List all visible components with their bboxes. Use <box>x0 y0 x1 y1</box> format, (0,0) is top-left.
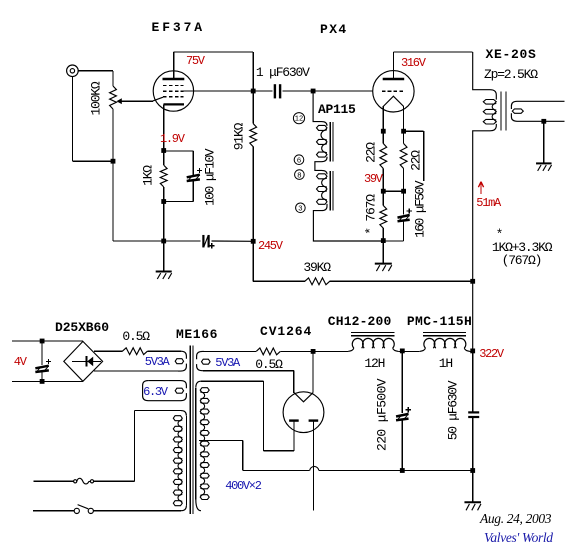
svg-text:12: 12 <box>295 116 303 124</box>
svg-text:6: 6 <box>297 157 302 165</box>
svg-text:3: 3 <box>298 206 303 214</box>
svg-text:8: 8 <box>297 172 302 180</box>
